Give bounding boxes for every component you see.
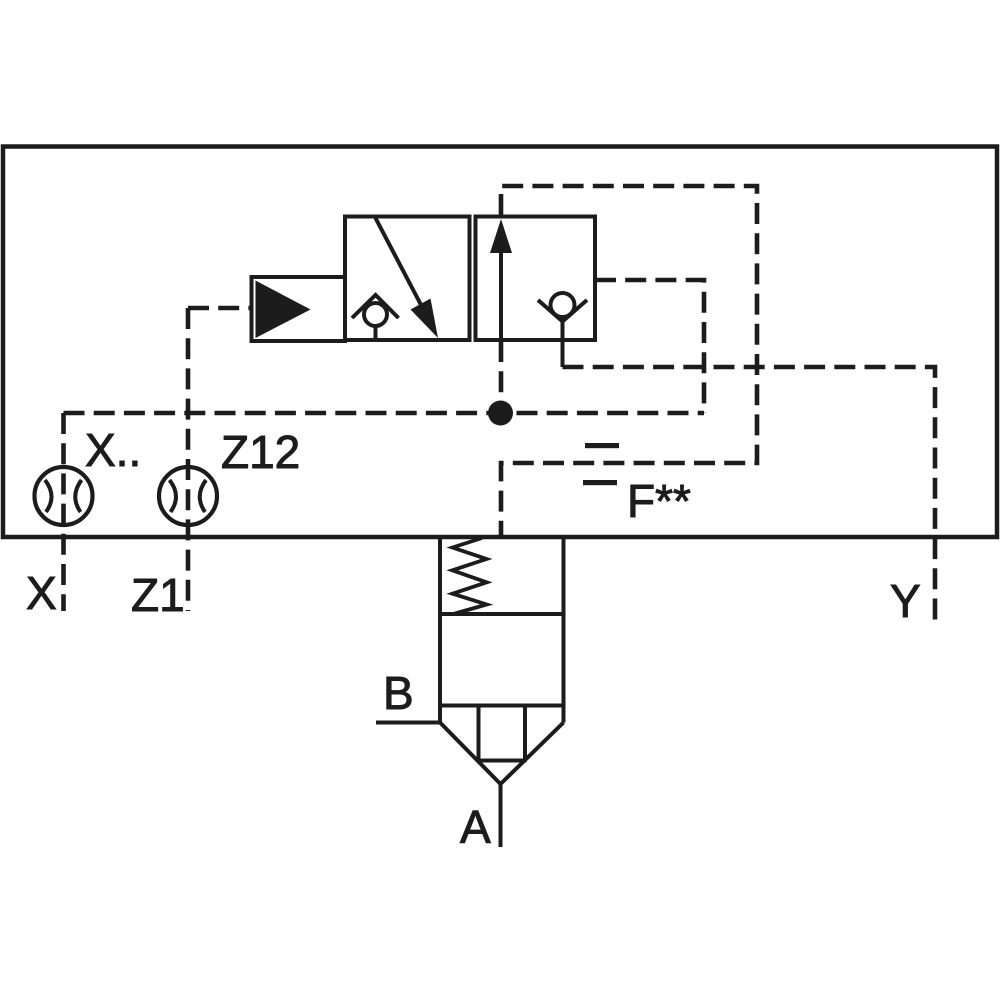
check valve V1 (right square) bbox=[538, 293, 587, 340]
wire: main pilot gallery horizontal dashed bbox=[64, 411, 705, 416]
wire: X riser vertical dashed bbox=[61, 413, 66, 611]
svg-text:X: X bbox=[26, 567, 57, 619]
wire: check valve outlet stub bbox=[561, 340, 565, 367]
cartridge poppet bbox=[440, 706, 564, 785]
wire: valve top to F** loop dashed bbox=[501, 186, 757, 537]
wire: Z1 riser vertical dashed bbox=[186, 308, 191, 611]
svg-text:Z12: Z12 bbox=[221, 426, 300, 478]
svg-text:Y: Y bbox=[890, 575, 921, 627]
wire: port A stub bbox=[499, 784, 503, 847]
wire: port B stub bbox=[376, 721, 440, 725]
cartridge valve LC body bbox=[440, 537, 564, 723]
pilot valve U1 right position square bbox=[476, 217, 596, 341]
node junction dot bbox=[488, 401, 513, 426]
svg-text:Z1: Z1 bbox=[131, 569, 185, 621]
wire: right square side port dashed bbox=[595, 280, 704, 413]
pilot valve U1 diagonal arrow (left square) bbox=[376, 218, 439, 338]
flow arrow up (right square) bbox=[490, 219, 512, 341]
hydraulic pilot actuator box bbox=[252, 277, 346, 341]
wire: pilot inlet dashed from Z1 riser to actuator bbox=[188, 306, 252, 311]
orifice F** bars bbox=[583, 443, 619, 485]
pilot valve U1 left position square bbox=[345, 217, 470, 341]
svg-text:F**: F** bbox=[627, 475, 691, 527]
poppet seat symbol (left square) bbox=[352, 295, 399, 340]
measuring coupling Z12 bbox=[159, 467, 217, 525]
wire: drain line to Y dashed bbox=[563, 367, 936, 622]
svg-text:X..: X.. bbox=[85, 424, 141, 476]
svg-text:A: A bbox=[460, 801, 491, 853]
measuring coupling X.. bbox=[35, 467, 93, 525]
pilot actuator triangle bbox=[256, 281, 311, 339]
cartridge spring bbox=[452, 538, 486, 614]
svg-text:B: B bbox=[383, 667, 414, 719]
wire: valve bottom port to junction dashed bbox=[499, 341, 504, 413]
manifold block frame bbox=[3, 147, 997, 538]
